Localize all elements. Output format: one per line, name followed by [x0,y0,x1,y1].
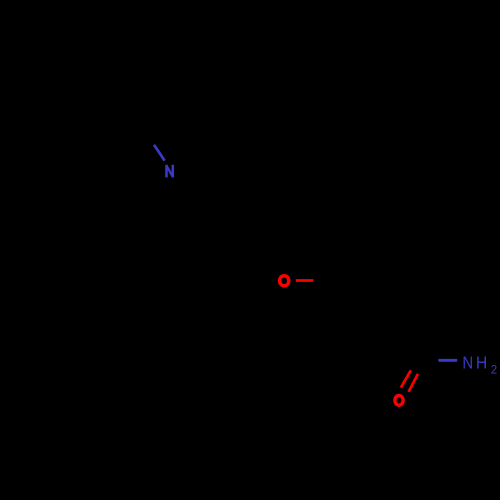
node O: carbonyl oxygen label [395,395,403,405]
svg-text:H: H [476,353,487,373]
svg-text:2: 2 [491,365,497,377]
node O: ether oxygen label [280,276,289,286]
node N: pyridine-type nitrogen label [167,165,173,178]
wire: bond C to N (blue half) [154,145,165,161]
wire: C=O double bond line 2 (red half) [409,374,418,392]
wire: bond C to N of amide (blue half) [438,359,457,362]
svg-text:N: N [462,354,473,373]
wire: C=O double bond line 1 (red half) [401,370,411,387]
wire: bond O to C (red half, horizontal) [296,279,314,282]
